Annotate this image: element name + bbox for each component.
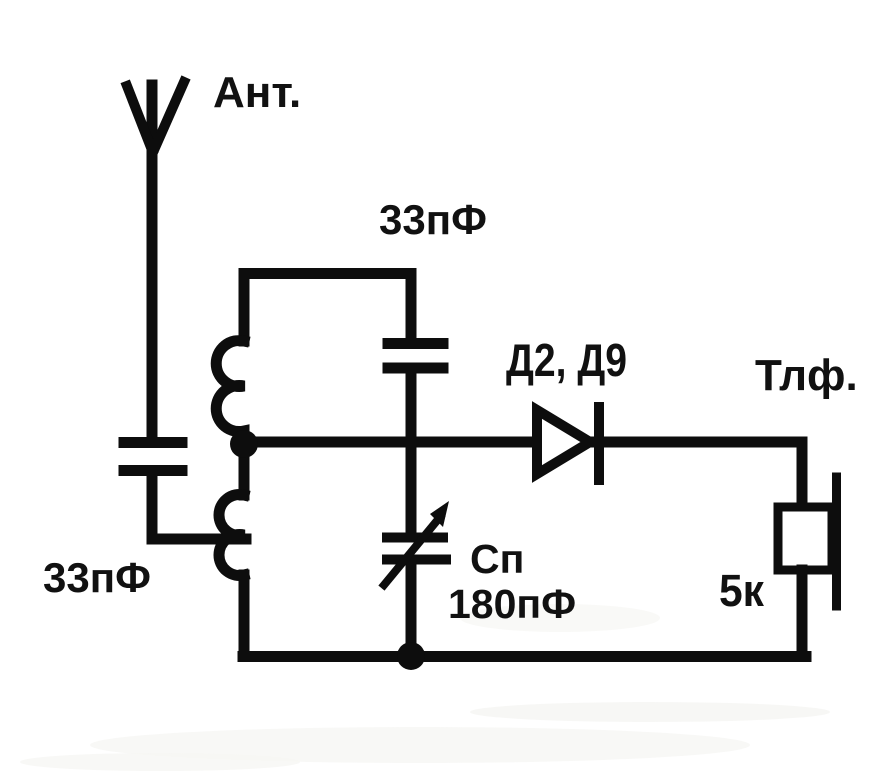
svg-text:Сп: Сп [470, 536, 524, 582]
arrowhead of variable capacitor Cп [430, 501, 449, 527]
capacitor C2 33пФ (top) [388, 344, 443, 369]
svg-text:Тлф.: Тлф. [755, 351, 858, 400]
capacitor C1 33пФ (antenna coupling) [124, 443, 182, 471]
scan smudges (background texture) [20, 604, 830, 771]
wire: detector rail (coil tap to diode) [244, 437, 536, 448]
wire: coil bottom to bottom rail [239, 575, 250, 657]
wire: telephone to bottom rail [797, 570, 808, 656]
wire: coil mid section [239, 444, 250, 495]
svg-text:180пФ: 180пФ [448, 581, 576, 627]
telephone BF1 Тлф. [778, 477, 837, 606]
svg-text:5к: 5к [719, 565, 764, 616]
wire: C1 to coil tap [152, 471, 246, 539]
inductor L1 lower winding [219, 495, 244, 576]
wire: bottom rail [243, 651, 806, 662]
svg-text:Д2, Д9: Д2, Д9 [506, 334, 627, 386]
svg-text:33пФ: 33пФ [43, 554, 151, 601]
svg-text:Ант.: Ант. [213, 68, 301, 117]
inductor L1 upper winding [216, 341, 244, 445]
node: bottom rail junction [397, 642, 425, 670]
capacitor Cп 180пФ (variable) [384, 517, 446, 656]
svg-text:33пФ: 33пФ [379, 196, 487, 243]
wire: diode to telephone [594, 442, 802, 507]
diode VD1 Д2, Д9 [537, 407, 599, 480]
antenna WA1 [127, 82, 184, 437]
node: coil tap junction [230, 430, 258, 458]
wire: tank top loop [244, 274, 411, 342]
wire: C2 to variable capacitor [406, 371, 417, 534]
